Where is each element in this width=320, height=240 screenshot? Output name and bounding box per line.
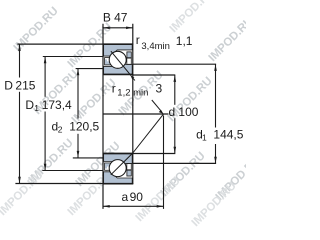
svg-text:B: B — [103, 11, 111, 25]
ext line D1 bottom — [42, 170, 103, 172]
dimension d2 line — [77, 69, 79, 119]
svg-text:120,5: 120,5 — [69, 119, 99, 133]
dimension a line — [103, 205, 163, 207]
dimension d1 line — [215, 64, 217, 127]
ext line D top — [17, 43, 103, 45]
svg-text:1: 1 — [34, 103, 39, 113]
label D 215 — [4, 78, 35, 92]
ext line D1 top — [43, 56, 103, 58]
dimension D1 line — [44, 57, 46, 97]
arrowhead pointing up-left below inner ring corner — [130, 75, 134, 79]
contact line through bottom ball — [133, 114, 164, 153]
ext line d2 bottom — [73, 157, 103, 159]
label r3,4min 1,1 — [136, 33, 193, 52]
svg-text:215: 215 — [15, 78, 35, 92]
label d2 120,5 — [52, 119, 100, 134]
svg-text:2: 2 — [58, 124, 63, 134]
contact line through top ball — [111, 51, 131, 76]
label B 47 — [103, 11, 128, 25]
svg-text:r: r — [112, 81, 116, 95]
bearing right face / extension line — [132, 24, 134, 184]
svg-text:47: 47 — [114, 11, 128, 25]
dimension D line — [19, 44, 21, 77]
bearing left face / extension line — [102, 24, 104, 209]
label D1 173,4 — [25, 98, 72, 113]
svg-text:3: 3 — [156, 82, 163, 96]
svg-text:D: D — [25, 98, 34, 112]
ext line d1 bottom — [133, 162, 216, 164]
a extension line right (pressure centre) — [163, 116, 165, 209]
svg-text:d: d — [169, 105, 176, 119]
svg-text:173,4: 173,4 — [42, 98, 72, 112]
axis centerline — [103, 113, 169, 115]
faint bottom watermark row — [0, 0, 239, 229]
dimension B line — [103, 27, 133, 29]
svg-text:100: 100 — [178, 105, 198, 119]
svg-text:a: a — [122, 190, 129, 204]
svg-text:D: D — [4, 78, 13, 92]
svg-text:144,5: 144,5 — [213, 128, 243, 142]
ext line D bottom — [15, 183, 103, 185]
svg-text:r: r — [136, 33, 140, 47]
label a 90 — [122, 190, 144, 204]
arrowhead at pressure centre — [159, 110, 164, 114]
svg-text:90: 90 — [130, 190, 144, 204]
ext line d top — [133, 74, 175, 76]
svg-text:1: 1 — [202, 133, 207, 143]
ext line d bottom — [133, 153, 175, 155]
ext line d1 top — [133, 63, 216, 65]
watermark tiles IMPOD.RU — [12, 5, 263, 203]
label d1 144,5 — [196, 128, 244, 143]
svg-text:1,1: 1,1 — [176, 34, 193, 48]
svg-text:3,4min: 3,4min — [141, 41, 170, 52]
contact line resume segment to pressure centre — [152, 100, 162, 112]
label d 100 — [169, 105, 199, 119]
dimension d line — [174, 75, 176, 105]
label r1,2 min 3 — [112, 81, 163, 98]
svg-text:1,2 min: 1,2 min — [117, 87, 148, 98]
ext line d2 top — [76, 68, 103, 70]
